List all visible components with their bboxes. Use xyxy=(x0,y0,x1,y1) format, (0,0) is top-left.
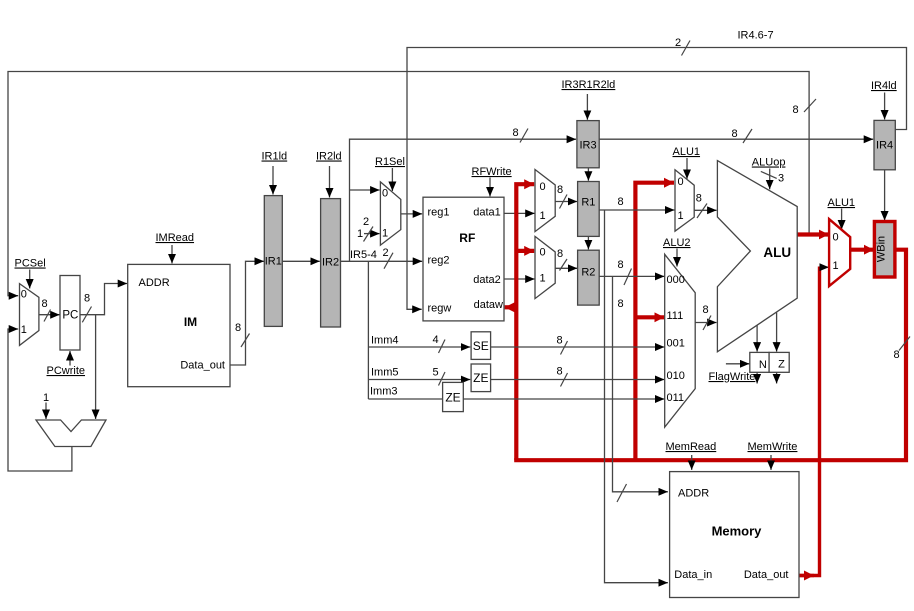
svg-text:1: 1 xyxy=(540,273,546,285)
svg-text:8: 8 xyxy=(732,128,738,140)
wire RF data2 to data2 mux input 1 xyxy=(504,278,535,280)
slash SE out xyxy=(561,341,568,355)
wire RFWrite control arrow xyxy=(489,178,491,197)
slash IR5-4 xyxy=(384,253,393,269)
wire Imm4 into SE xyxy=(368,346,470,348)
svg-text:SE: SE xyxy=(473,339,489,353)
slash data2 mux out xyxy=(560,259,568,271)
wire R1Sel control arrow xyxy=(391,168,393,191)
wire Z flag output xyxy=(776,372,778,383)
svg-text:ALU: ALU xyxy=(763,245,791,260)
wire ALU to N flag xyxy=(756,324,758,352)
wire R1 output branch down to Memory Data_in xyxy=(605,210,668,583)
wire R1Sel mux output to RF reg1 xyxy=(401,213,422,215)
svg-text:010: 010 xyxy=(667,370,685,382)
register IR4 xyxy=(874,120,895,169)
svg-text:IR2ld: IR2ld xyxy=(316,151,342,163)
svg-text:1: 1 xyxy=(21,324,27,336)
svg-text:IR2: IR2 xyxy=(322,257,339,269)
block IM instruction memory xyxy=(128,264,230,386)
svg-text:0: 0 xyxy=(540,181,546,193)
wire IR3 to R1 xyxy=(587,168,589,181)
slash ZE out xyxy=(561,373,568,387)
svg-text:PCwrite: PCwrite xyxy=(47,365,86,377)
wire PCSel mux output to PC xyxy=(39,314,59,316)
slash bus into IR4 xyxy=(743,129,752,143)
wire RF data1 to data1 mux input 1 xyxy=(504,212,535,214)
wire IR4.6-7 from IR4 right edge up over the top and down to RF regw xyxy=(407,48,907,310)
wire Imm5 into ZE xyxy=(368,379,470,381)
svg-text:5: 5 xyxy=(433,367,439,379)
wire red branch to ALU2 mux input 111 xyxy=(635,315,664,319)
slash data1 mux out xyxy=(560,195,568,209)
wire IR4ld control arrow xyxy=(884,93,886,120)
slash Imm4 xyxy=(439,340,446,354)
svg-text:0: 0 xyxy=(21,289,27,301)
svg-text:Memory: Memory xyxy=(712,524,763,539)
svg-text:Data_out: Data_out xyxy=(180,360,225,372)
svg-text:8: 8 xyxy=(696,193,702,205)
wire ALU1 control arrow of WB mux xyxy=(841,209,843,230)
svg-text:IR4: IR4 xyxy=(876,140,893,152)
svg-text:8: 8 xyxy=(42,298,48,310)
mux ALU2 xyxy=(665,254,696,427)
slash top 2-bit xyxy=(682,41,691,56)
mux PCSel xyxy=(20,284,39,346)
wire IM Data_out to IR1 xyxy=(230,261,264,365)
svg-text:IR5-4: IR5-4 xyxy=(350,249,377,261)
mux ALU1 xyxy=(675,170,694,231)
svg-text:8: 8 xyxy=(793,104,799,116)
svg-text:8: 8 xyxy=(235,322,241,334)
svg-text:Z: Z xyxy=(778,359,785,371)
wire IR1ld control arrow xyxy=(272,166,274,195)
svg-text:8: 8 xyxy=(618,298,624,310)
svg-text:ALUop: ALUop xyxy=(752,157,786,169)
svg-text:8: 8 xyxy=(618,259,624,271)
svg-text:1: 1 xyxy=(833,260,839,272)
wire immediate branch down from IR5-4 node xyxy=(367,261,369,399)
register IR1 xyxy=(264,196,282,327)
wire red WB mux output into WBin xyxy=(850,248,874,252)
slash ALUop xyxy=(761,171,777,178)
wire SE output to ALU2 mux input 001 xyxy=(491,346,665,348)
svg-text:8: 8 xyxy=(557,366,563,378)
svg-text:Data_out: Data_out xyxy=(744,569,789,581)
wire PC output branch down to adder xyxy=(95,315,97,419)
wire R2 output branch down to Memory ADDR xyxy=(613,276,668,491)
svg-text:Imm3: Imm3 xyxy=(370,386,398,398)
svg-text:IM: IM xyxy=(184,315,197,329)
svg-text:1: 1 xyxy=(540,210,546,222)
wire ALU2 mux output to ALU xyxy=(695,322,716,324)
mux data1 xyxy=(535,170,555,232)
wire R1 output to ALU1 mux input 1 xyxy=(599,209,674,211)
wire PCwrite control arrow xyxy=(69,351,71,366)
svg-text:Data_in: Data_in xyxy=(674,569,712,581)
svg-text:WBin: WBin xyxy=(876,236,888,262)
wire MemWrite control arrow xyxy=(770,455,772,470)
svg-text:MemRead: MemRead xyxy=(666,441,717,453)
svg-text:MemWrite: MemWrite xyxy=(748,441,798,453)
svg-text:data2: data2 xyxy=(473,274,501,286)
svg-text:ZE: ZE xyxy=(445,391,460,405)
svg-text:IR4ld: IR4ld xyxy=(871,80,897,92)
svg-text:N: N xyxy=(759,359,767,371)
wire R2 output to ALU2 mux input 000 xyxy=(599,275,664,277)
wire PC output to IM ADDR xyxy=(80,284,127,315)
wire IR4 output down to WBin xyxy=(884,170,886,221)
svg-text:8: 8 xyxy=(703,304,709,316)
svg-text:2: 2 xyxy=(383,247,389,259)
svg-text:ZE: ZE xyxy=(473,371,488,385)
svg-text:regw: regw xyxy=(428,303,452,315)
svg-text:reg2: reg2 xyxy=(428,255,450,267)
wire red ALU output to WB mux input 0 xyxy=(797,232,829,236)
mux data2 xyxy=(535,236,555,298)
wire IR2 output branch up to 8-bit instruction bus into IR3 xyxy=(350,139,577,261)
register Z flag xyxy=(769,352,789,372)
register IR3 xyxy=(577,121,599,168)
wire branch into R1Sel mux input 0 xyxy=(350,189,380,191)
wire red vertical write-back feedback to data1 mux input 0 xyxy=(516,184,534,460)
svg-text:4: 4 xyxy=(433,334,439,346)
slash ALU1 mux out xyxy=(697,204,707,219)
svg-text:8: 8 xyxy=(618,196,624,208)
block ALU xyxy=(717,161,797,352)
svg-text:dataw: dataw xyxy=(474,299,503,311)
svg-text:IR4.6-7: IR4.6-7 xyxy=(738,30,774,42)
register IR2 xyxy=(321,199,341,327)
wire red Memory Data_out arrowhead xyxy=(799,574,814,577)
slash jump feedback xyxy=(804,99,816,112)
wire red branch left into RF dataw xyxy=(505,305,517,309)
svg-text:0: 0 xyxy=(540,247,546,259)
svg-text:000: 000 xyxy=(667,274,685,286)
wire memory feedback black arrow into WB mux input 1 xyxy=(820,266,829,268)
wire red branch to data2 mux input 0 xyxy=(516,249,534,253)
svg-text:001: 001 xyxy=(667,338,685,350)
block ZE zero extend lower xyxy=(443,382,464,411)
wire 8-bit bus IR3 to IR4 xyxy=(599,138,873,140)
svg-text:PC: PC xyxy=(62,310,78,322)
wire Imm3 through ZE to ALU2 mux input 011 xyxy=(368,398,664,400)
wire adder output feedback loop to PCSel mux input 1 xyxy=(8,329,72,471)
wire MemRead control arrow xyxy=(691,455,693,470)
svg-text:PCSel: PCSel xyxy=(15,258,46,270)
svg-text:8: 8 xyxy=(894,349,900,361)
slash PC out xyxy=(82,307,91,323)
wire red Memory Data_out up to WB mux input 1 xyxy=(799,267,820,576)
slash R1Sel input 1 xyxy=(364,227,374,242)
slash PCSel mux out xyxy=(44,310,51,322)
wire ALU1 mux output to ALU xyxy=(694,209,716,211)
svg-text:2: 2 xyxy=(363,216,369,228)
block SE sign extend xyxy=(471,332,491,360)
block Memory data memory xyxy=(670,472,799,598)
svg-text:ADDR: ADDR xyxy=(139,277,170,289)
mux R1Sel xyxy=(380,182,400,245)
svg-text:1: 1 xyxy=(357,228,363,240)
svg-text:8: 8 xyxy=(84,293,90,305)
wire R1 to R2 xyxy=(587,236,589,249)
svg-text:1: 1 xyxy=(43,392,49,404)
slash IM out xyxy=(241,334,250,348)
svg-text:R2: R2 xyxy=(581,267,595,279)
svg-text:0: 0 xyxy=(382,188,388,200)
register PC xyxy=(60,276,80,351)
svg-text:011: 011 xyxy=(667,392,685,404)
svg-text:IR3: IR3 xyxy=(579,140,596,152)
svg-text:IR1ld: IR1ld xyxy=(262,151,288,163)
svg-text:0: 0 xyxy=(678,176,684,188)
svg-text:8: 8 xyxy=(513,127,519,139)
wire data1 mux output to R1 xyxy=(555,201,577,203)
svg-text:RF: RF xyxy=(459,231,475,245)
svg-text:FlagWrite: FlagWrite xyxy=(709,371,756,383)
slash red right vertical xyxy=(899,337,910,351)
wire stub into R1Sel mux input 1 xyxy=(364,233,380,235)
svg-text:8: 8 xyxy=(557,335,563,347)
svg-text:ALU1: ALU1 xyxy=(673,146,701,158)
wire IR3R1R2ld control arrow xyxy=(586,94,588,120)
wire ALUop control arrow xyxy=(769,169,771,190)
register R2 xyxy=(578,250,600,305)
register WBin xyxy=(874,222,895,278)
svg-text:Imm4: Imm4 xyxy=(371,335,399,347)
svg-text:ALU1: ALU1 xyxy=(828,197,856,209)
wire red write-back bus from WBin output down and left along bottom xyxy=(514,250,906,461)
wire ALU2 control arrow xyxy=(676,249,678,267)
slash Imm5 xyxy=(439,372,446,386)
register N flag xyxy=(750,352,769,372)
svg-text:8: 8 xyxy=(557,248,563,260)
svg-text:2: 2 xyxy=(675,37,681,49)
svg-text:RFWrite: RFWrite xyxy=(472,166,512,178)
register R1 xyxy=(578,182,600,237)
wire IR1 to IR2 xyxy=(282,260,320,262)
slash bus into IR3 xyxy=(520,129,528,143)
wire constant 1 into adder xyxy=(45,403,47,420)
slash Memory ADDR wire xyxy=(617,484,627,502)
wire N flag output xyxy=(756,372,758,383)
svg-text:111: 111 xyxy=(667,310,684,322)
wire data2 mux output to R2 xyxy=(555,267,577,269)
svg-text:1: 1 xyxy=(678,210,684,222)
slash R2 out xyxy=(624,269,632,286)
svg-text:ADDR: ADDR xyxy=(678,488,709,500)
wire ZE output to ALU2 mux input 010 xyxy=(491,379,665,381)
svg-text:IR3R1R2ld: IR3R1R2ld xyxy=(562,79,616,91)
wire red vertical write-back feedback to ALU1 mux input 0 xyxy=(635,183,674,461)
svg-text:1: 1 xyxy=(382,228,388,240)
svg-text:Imm5: Imm5 xyxy=(371,367,399,379)
svg-text:IR1: IR1 xyxy=(265,256,282,268)
wire PCSel control arrow xyxy=(29,270,31,289)
block ZE zero extend upper xyxy=(471,364,491,392)
wire jump feedback from ALU output node up along x=809 and left along y=71.5 down to PCSel mux input 0 xyxy=(8,72,809,296)
svg-text:8: 8 xyxy=(557,184,563,196)
svg-text:reg1: reg1 xyxy=(428,207,450,219)
wire FlagWrite arrow into N box xyxy=(726,363,750,365)
svg-text:R1Sel: R1Sel xyxy=(375,156,405,168)
svg-text:data1: data1 xyxy=(473,207,501,219)
svg-text:3: 3 xyxy=(778,173,784,185)
block RF register file xyxy=(423,197,504,321)
svg-text:IMRead: IMRead xyxy=(156,232,195,244)
wire IR2 output IR5-4 to RF reg2 xyxy=(341,260,423,262)
svg-text:R1: R1 xyxy=(581,197,595,209)
wire IR2ld control arrow xyxy=(329,166,331,198)
wire ALU to Z flag xyxy=(776,312,778,351)
wire IMRead control arrow xyxy=(171,245,173,263)
wire ALU1 control arrow xyxy=(686,158,688,179)
svg-text:ALU2: ALU2 xyxy=(663,237,691,249)
svg-text:0: 0 xyxy=(833,232,839,244)
adder PC+1 xyxy=(36,420,106,447)
mux WB ALU1 red xyxy=(829,219,850,286)
slash ALU2 mux out xyxy=(703,316,711,331)
